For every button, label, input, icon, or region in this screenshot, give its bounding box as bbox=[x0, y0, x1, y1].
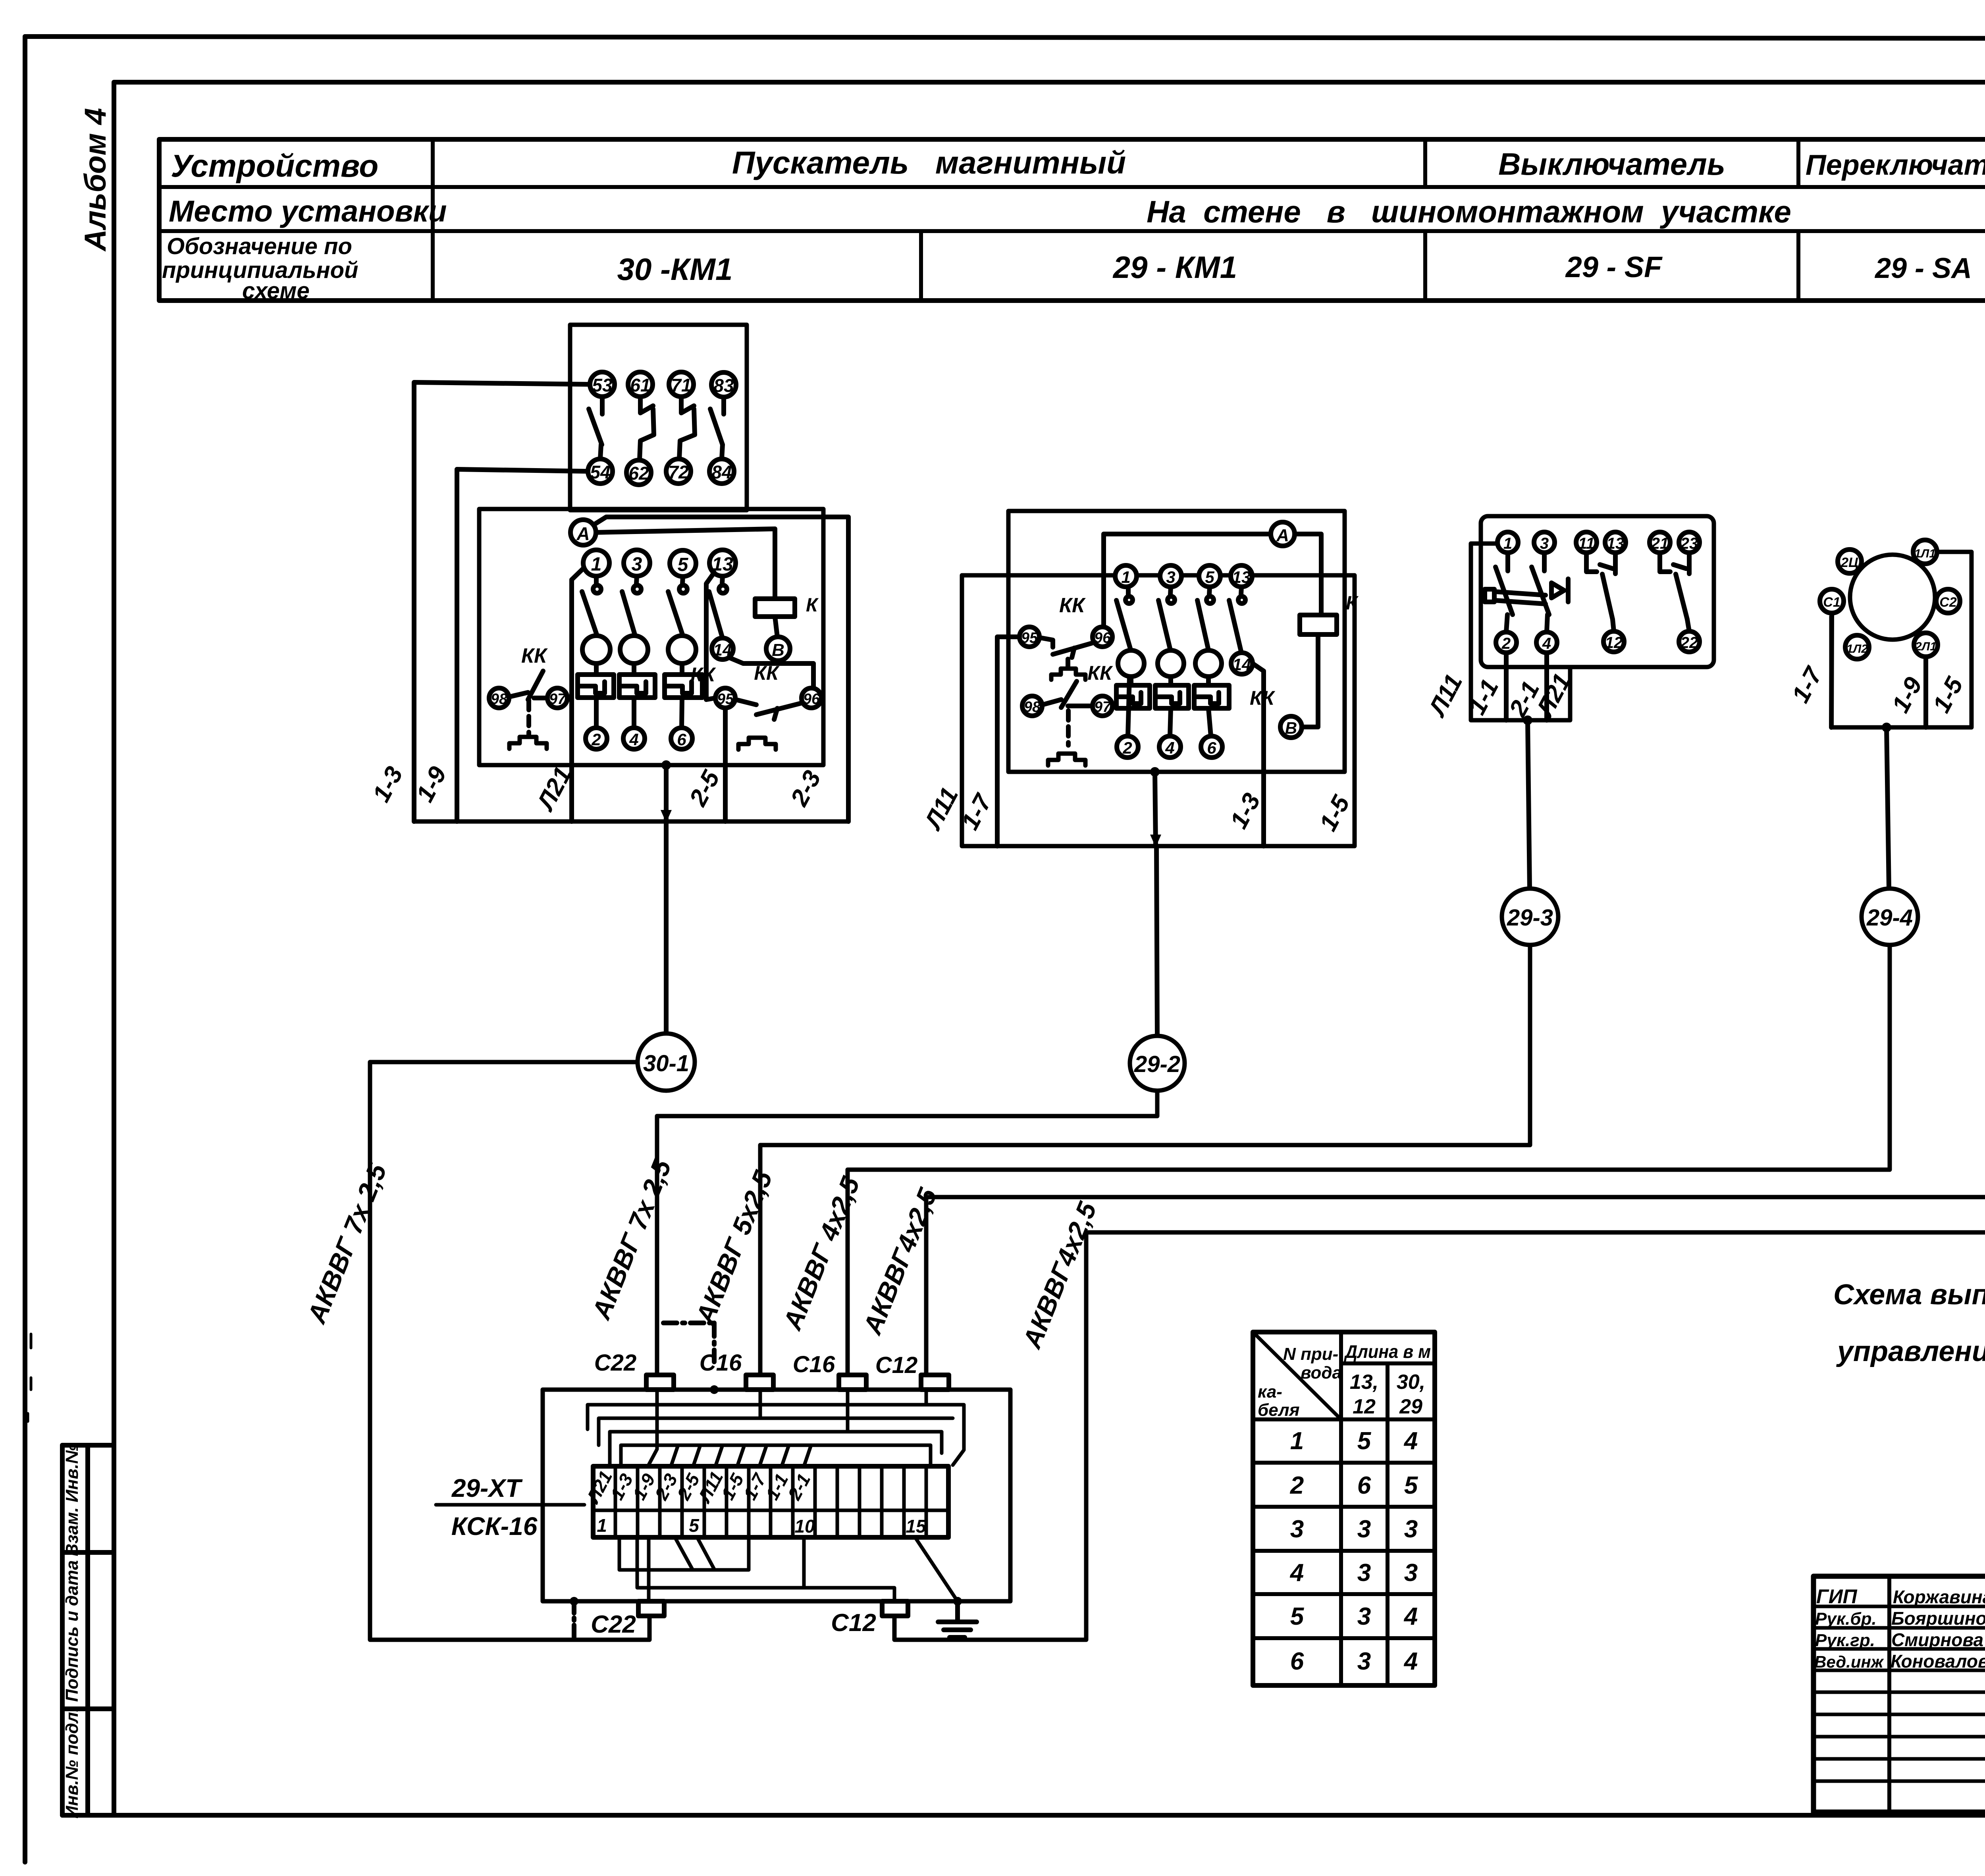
svg-text:2: 2 bbox=[591, 730, 601, 749]
svg-text:54: 54 bbox=[590, 462, 610, 482]
breaker pole 2 arm bbox=[1532, 553, 1549, 632]
terminal 13 of 29-КМ1 bbox=[1231, 565, 1252, 587]
pole coil circle 3 of 29-КМ1 bbox=[1195, 650, 1222, 677]
svg-text:98: 98 bbox=[491, 691, 508, 708]
wire 2-5 from 95 down bbox=[723, 708, 728, 821]
svg-text:Рук.гр.: Рук.гр. bbox=[1815, 1631, 1875, 1650]
svg-text:Рук.бр.: Рук.бр. bbox=[1815, 1609, 1877, 1629]
selector terminal 1Л2 bbox=[1845, 635, 1869, 659]
wire terminal 2 lead bbox=[594, 698, 599, 728]
breaker latch tick bbox=[1566, 579, 1571, 602]
wire terminal 4 lead of 29-КМ1 bbox=[1170, 708, 1171, 736]
aux contact 61-62 NC bbox=[640, 397, 654, 460]
internal wiring loop 2 bbox=[588, 1390, 964, 1465]
cable marker circle 29-3 bbox=[1502, 889, 1558, 945]
terminal 13 of 29-SF bbox=[1605, 532, 1626, 553]
svg-text:4: 4 bbox=[1165, 738, 1174, 757]
svg-text:1Л2: 1Л2 bbox=[1846, 642, 1868, 656]
svg-text:5: 5 bbox=[1404, 1472, 1418, 1499]
contact arm 95-96 of 29-КМ1 bbox=[1040, 638, 1092, 657]
svg-text:13: 13 bbox=[1232, 568, 1251, 586]
svg-text:1Л1: 1Л1 bbox=[1914, 547, 1936, 560]
svg-text:С2: С2 bbox=[1939, 595, 1957, 610]
heater element 2 of 29-КМ1 bbox=[1155, 677, 1189, 708]
wire A to coil K bbox=[1295, 534, 1321, 615]
ground symbol bbox=[938, 1597, 977, 1637]
aux contact 21-22 of 29-SF bbox=[1660, 553, 1689, 631]
svg-text:5: 5 bbox=[1290, 1603, 1305, 1630]
terminal 54 bbox=[588, 459, 613, 484]
svg-text:2: 2 bbox=[1122, 738, 1132, 757]
wire С1 down 1-7 bbox=[1831, 613, 1832, 727]
svg-text:13: 13 bbox=[1607, 535, 1625, 552]
cable gland С16 top 2 bbox=[839, 1375, 866, 1390]
terminal strip outline bbox=[593, 1466, 948, 1537]
svg-text:5: 5 bbox=[689, 1515, 700, 1536]
cable gland С12 bottom bbox=[882, 1601, 908, 1616]
aux pole 13-14 contact bbox=[709, 576, 727, 637]
svg-text:4: 4 bbox=[1403, 1427, 1418, 1455]
svg-text:1: 1 bbox=[591, 554, 602, 575]
device table split 30-КМ1 / 29-КМ1 bbox=[919, 231, 923, 301]
svg-text:72: 72 bbox=[668, 462, 689, 482]
svg-text:С22: С22 bbox=[594, 1350, 636, 1376]
svg-text:A: A bbox=[576, 523, 590, 544]
contact arm 95-96 bbox=[736, 700, 803, 719]
svg-text:29 - SA: 29 - SA bbox=[1874, 253, 1972, 284]
svg-text:Выключатель: Выключатель bbox=[1498, 147, 1725, 181]
svg-text:Подпись и дата: Подпись и дата bbox=[62, 1560, 82, 1702]
thermal release dashed stem of 29-КМ1 bbox=[1066, 711, 1071, 745]
device table outline bbox=[159, 139, 1985, 301]
svg-text:1: 1 bbox=[1290, 1427, 1304, 1455]
terminal 95 of 29-КМ1 bbox=[1019, 627, 1039, 647]
cable run from 29-2 to С22 gland bbox=[657, 1091, 1157, 1375]
thermal release bracket 1 bbox=[509, 737, 547, 749]
node B bbox=[766, 637, 790, 661]
svg-text:4: 4 bbox=[1289, 1559, 1304, 1587]
svg-text:6: 6 bbox=[1207, 738, 1216, 757]
svg-text:4: 4 bbox=[1403, 1603, 1418, 1630]
svg-text:29: 29 bbox=[1399, 1395, 1422, 1418]
selector switch 29-SA body circle bbox=[1850, 555, 1935, 640]
svg-text:2Ц: 2Ц bbox=[1840, 555, 1858, 570]
shield dash-dot mark bbox=[663, 1323, 714, 1362]
strip cell labels bbox=[582, 1467, 927, 1537]
pole 3 contact bbox=[668, 576, 687, 634]
svg-text:5: 5 bbox=[1205, 568, 1214, 586]
svg-text:КСК-16: КСК-16 bbox=[451, 1512, 538, 1541]
svg-text:С16: С16 bbox=[700, 1350, 742, 1376]
heater element 3 of 29-КМ1 bbox=[1194, 677, 1229, 708]
svg-text:2Л1: 2Л1 bbox=[1915, 640, 1937, 653]
pole 2 contact of 29-КМ1 bbox=[1158, 587, 1175, 648]
wire terminal 6 lead bbox=[682, 698, 682, 728]
wire bus to cable circle 29-2 bbox=[1156, 846, 1157, 1036]
svg-text:6: 6 bbox=[1357, 1472, 1371, 1499]
svg-text:С1: С1 bbox=[1823, 595, 1840, 610]
svg-text:2: 2 bbox=[1290, 1472, 1304, 1499]
wire 1-7 from 95 bbox=[997, 637, 1019, 846]
svg-text:С12: С12 bbox=[831, 1609, 876, 1637]
terminal 71 bbox=[669, 372, 694, 397]
internal wiring loop 4 bbox=[610, 1390, 942, 1466]
svg-text:11: 11 bbox=[1578, 535, 1595, 552]
wire A to 96 bbox=[1104, 534, 1271, 627]
cable run from 29-3 to С16 gland bbox=[760, 945, 1530, 1375]
svg-text:97: 97 bbox=[1094, 699, 1112, 715]
terminal 6 bbox=[671, 728, 692, 749]
svg-text:Место установки: Место установки bbox=[169, 195, 447, 228]
terminal 97 bbox=[547, 688, 567, 708]
wire 1-3 from terminal 53 bbox=[414, 382, 590, 821]
svg-text:30-1: 30-1 bbox=[643, 1051, 689, 1076]
svg-text:3: 3 bbox=[1357, 1559, 1371, 1587]
terminal 5 of 29-КМ1 bbox=[1199, 565, 1220, 587]
svg-text:Инв.№ подл.: Инв.№ подл. bbox=[62, 1707, 82, 1818]
wire 13 down to 95 bbox=[706, 573, 715, 700]
thermal release bracket B of 29-КМ1 bbox=[1048, 754, 1085, 765]
pole 3 contact of 29-КМ1 bbox=[1197, 587, 1214, 648]
svg-text:С12: С12 bbox=[875, 1352, 917, 1378]
svg-text:29-4: 29-4 bbox=[1866, 905, 1913, 931]
selector terminal С2 bbox=[1936, 589, 1960, 613]
terminal 11 of 29-SF bbox=[1576, 532, 1597, 553]
device table column: пускатель right bbox=[1423, 139, 1427, 187]
svg-text:B: B bbox=[1285, 719, 1297, 737]
wire node A to coil K bbox=[596, 529, 775, 599]
terminal 22 of 29-SF bbox=[1679, 631, 1700, 652]
aux contact 13 stub bbox=[1613, 553, 1618, 574]
svg-text:С16: С16 bbox=[793, 1352, 835, 1377]
aux contact 23 stub bbox=[1687, 553, 1692, 574]
svg-text:83: 83 bbox=[713, 375, 734, 396]
junction dot on box top bbox=[710, 1385, 719, 1394]
svg-text:3: 3 bbox=[1404, 1559, 1418, 1587]
terminal 3 of 29-SF bbox=[1534, 532, 1555, 553]
svg-text:КК: КК bbox=[1087, 662, 1113, 684]
svg-text:Взам. Инв.№: Взам. Инв.№ bbox=[62, 1444, 82, 1556]
svg-text:Переключатель: Переключатель bbox=[1806, 149, 1985, 181]
svg-text:53: 53 bbox=[592, 375, 613, 395]
wire 1-9 from terminal 54 bbox=[457, 469, 588, 821]
heater element 1 bbox=[578, 663, 614, 698]
terminal 6 of 29-КМ1 bbox=[1201, 736, 1222, 758]
terminal 12 of 29-SF bbox=[1603, 631, 1624, 652]
terminal 84 bbox=[709, 459, 734, 484]
album label: Альбом 4 bbox=[79, 108, 112, 252]
svg-text:29 - КМ1: 29 - КМ1 bbox=[1112, 250, 1237, 285]
terminal 1 bbox=[583, 550, 609, 576]
terminal 95 bbox=[715, 688, 735, 708]
aux pole 13-14 contact of 29-КМ1 bbox=[1229, 587, 1245, 651]
wire terminal 2 down bbox=[1504, 653, 1509, 720]
strip designation 29-ХТ / КСК-16 bbox=[451, 1474, 538, 1541]
junction arrow on 29-КМ1 bus bbox=[1150, 835, 1161, 847]
svg-text:6: 6 bbox=[1290, 1648, 1304, 1675]
terminal 83 bbox=[711, 372, 736, 397]
breaker trip triangle bbox=[1551, 583, 1564, 598]
svg-text:5: 5 bbox=[678, 554, 689, 575]
svg-text:3: 3 bbox=[1166, 568, 1175, 586]
contactor 29-КМ1 outer box bbox=[962, 575, 1355, 846]
cable run from 29-4 to С16 gland bbox=[848, 945, 1890, 1375]
svg-text:2: 2 bbox=[1501, 635, 1511, 652]
contact arm 98-97 bbox=[509, 671, 547, 700]
svg-text:К: К bbox=[806, 595, 819, 616]
internal wiring loop 3 bbox=[599, 1390, 953, 1445]
thermal release bracket 2 bbox=[738, 738, 776, 750]
terminal strip mid line bbox=[593, 1509, 948, 1512]
svg-text:КК: КК bbox=[521, 644, 548, 667]
svg-text:29-ХТ: 29-ХТ bbox=[451, 1474, 523, 1502]
terminal 14 bbox=[712, 638, 733, 659]
svg-text:30,: 30, bbox=[1397, 1371, 1425, 1394]
wire 1-3 from 14 bbox=[1253, 663, 1264, 846]
pole 2 contact bbox=[622, 576, 641, 634]
wire coil to B bbox=[1302, 634, 1318, 727]
node A bbox=[570, 520, 596, 545]
terminal 5 bbox=[670, 550, 696, 576]
terminal 4 of 29-SF bbox=[1536, 632, 1557, 653]
svg-text:3: 3 bbox=[1357, 1515, 1371, 1543]
svg-text:62: 62 bbox=[628, 463, 649, 484]
wire junction down to bus bbox=[1155, 772, 1156, 846]
svg-text:97: 97 bbox=[549, 691, 567, 708]
junction dot under 29-SF bbox=[1523, 715, 1532, 725]
svg-text:14: 14 bbox=[1233, 655, 1251, 674]
coil K of 29-КМ1 bbox=[1300, 593, 1359, 634]
contact arm 98-97 of 29-КМ1 bbox=[1043, 681, 1092, 708]
svg-text:96: 96 bbox=[1094, 630, 1111, 646]
svg-text:10: 10 bbox=[794, 1516, 815, 1537]
selector box outline bbox=[1831, 552, 1972, 727]
wire terminal 4 lead bbox=[632, 698, 636, 728]
heater element 1 of 29-КМ1 bbox=[1116, 677, 1150, 708]
cable table header rows bbox=[1253, 1363, 1435, 1419]
svg-text:N при-: N при- bbox=[1283, 1344, 1338, 1364]
wire terminal 6 lead of 29-КМ1 bbox=[1208, 708, 1211, 736]
internal wiring loop 1 bbox=[648, 1390, 657, 1466]
below-strip wire cell10 bbox=[802, 1537, 806, 1588]
terminal 14 of 29-КМ1 bbox=[1231, 653, 1253, 674]
names in title block bbox=[1814, 1585, 1985, 1672]
svg-text:B: B bbox=[772, 640, 784, 660]
svg-text:4: 4 bbox=[1403, 1648, 1418, 1675]
svg-text:Длина в м: Длина в м bbox=[1343, 1341, 1431, 1362]
svg-text:беля: беля bbox=[1258, 1400, 1300, 1420]
terminal 13 bbox=[709, 550, 736, 576]
sheet outer border top line bbox=[25, 37, 1985, 39]
svg-text:29-3: 29-3 bbox=[1507, 905, 1553, 931]
wire cell15 to ground bbox=[915, 1537, 957, 1600]
svg-text:Вед.инж: Вед.инж bbox=[1814, 1652, 1884, 1671]
terminal 98 of 29-КМ1 bbox=[1022, 696, 1042, 716]
cable marker circle 30-1 bbox=[638, 1033, 695, 1091]
terminal 96 of 29-КМ1 bbox=[1093, 627, 1112, 647]
cable gland С12 top bbox=[921, 1375, 949, 1390]
svg-text:3: 3 bbox=[1357, 1603, 1371, 1630]
wire down to 29-4 bbox=[1887, 727, 1889, 889]
svg-text:К: К bbox=[1346, 593, 1359, 614]
aux contact 11-12 of 29-SF bbox=[1586, 553, 1614, 631]
terminal 21 of 29-SF bbox=[1650, 532, 1670, 553]
svg-text:Альбом 4: Альбом 4 bbox=[79, 108, 112, 252]
heater element 3 bbox=[665, 663, 702, 698]
svg-text:Коржавина: Коржавина bbox=[1893, 1587, 1985, 1607]
svg-text:95: 95 bbox=[1021, 630, 1038, 646]
terminal 96 bbox=[802, 688, 821, 708]
terminal 3 bbox=[624, 550, 650, 576]
left strip label: Инв.№ подл. bbox=[62, 1707, 82, 1818]
junction dot under 29-SA bbox=[1882, 723, 1891, 732]
junction dot on box bottom bbox=[661, 760, 671, 770]
terminal 72 bbox=[666, 459, 691, 484]
contactor 29-КМ1 inner box bbox=[1008, 511, 1345, 772]
svg-text:12: 12 bbox=[1605, 634, 1623, 652]
terminal 61 bbox=[628, 372, 653, 397]
breaker pole 1 arm bbox=[1495, 553, 1513, 632]
terminal 2 bbox=[586, 728, 607, 749]
svg-text:3: 3 bbox=[1540, 535, 1549, 552]
contactor 30-КМ1 main box bbox=[479, 509, 823, 765]
cable length table outline bbox=[1253, 1332, 1435, 1685]
cable marker circle 29-2 bbox=[1130, 1036, 1185, 1091]
cable bus of 30-КМ1 bbox=[414, 819, 848, 824]
svg-text:13,: 13, bbox=[1350, 1371, 1378, 1394]
coil K bbox=[755, 595, 819, 617]
table texts bbox=[162, 145, 1985, 304]
wire 2Л1 down 1-9 bbox=[1923, 657, 1928, 727]
svg-text:6: 6 bbox=[677, 730, 686, 749]
svg-text:вода: вода bbox=[1301, 1363, 1342, 1382]
cable gland С16 top 1 bbox=[746, 1375, 773, 1390]
svg-text:96: 96 bbox=[803, 691, 820, 708]
cable table data rows bbox=[1253, 1463, 1435, 1638]
internal wiring loop 5 bbox=[621, 1445, 931, 1466]
heater element 2 bbox=[619, 663, 655, 698]
svg-text:С22: С22 bbox=[591, 1611, 636, 1638]
contactor 30-КМ1 auxiliary contact box bbox=[570, 325, 747, 510]
svg-text:29-2: 29-2 bbox=[1134, 1051, 1180, 1077]
svg-text:Бояршинов: Бояршинов bbox=[1891, 1608, 1985, 1629]
wire bus to cable circle 30-1 bbox=[664, 821, 669, 1033]
pole coil circle 2 bbox=[620, 636, 648, 663]
svg-text:5: 5 bbox=[1357, 1427, 1372, 1455]
cable run from 30-6 to bottom С12 gland bbox=[894, 956, 1985, 1640]
breaker 29-SF main box bbox=[1481, 516, 1714, 667]
terminal 1 of 29-SF bbox=[1497, 532, 1518, 553]
pole coil circle 1 bbox=[582, 636, 610, 663]
selector terminal С1 bbox=[1820, 589, 1844, 613]
svg-text:КК: КК bbox=[690, 663, 716, 686]
svg-text:84: 84 bbox=[711, 462, 732, 482]
svg-text:1: 1 bbox=[1503, 535, 1512, 552]
svg-text:Смирнова: Смирнова bbox=[1891, 1629, 1983, 1650]
wire terminal 2 lead of 29-КМ1 bbox=[1128, 677, 1129, 736]
cable marker circle 29-4 bbox=[1862, 889, 1918, 945]
svg-text:29 - SF: 29 - SF bbox=[1565, 251, 1663, 283]
pole coil circle 2 of 29-КМ1 bbox=[1158, 650, 1184, 677]
svg-text:98: 98 bbox=[1024, 699, 1041, 715]
junction dot on 29-КМ1 inner box bottom bbox=[1150, 767, 1160, 777]
svg-text:22: 22 bbox=[1680, 634, 1698, 652]
terminal 97 of 29-КМ1 bbox=[1093, 696, 1112, 716]
wire node A to bus 2-3 bbox=[594, 517, 848, 821]
left frame strip columns bbox=[62, 1445, 114, 1815]
below-strip loop to С22 bottom bbox=[647, 1537, 651, 1601]
cable run from 29-5 to С12 gland bbox=[926, 954, 1985, 1375]
terminal 3 of 29-КМ1 bbox=[1160, 565, 1181, 587]
svg-text:A: A bbox=[1276, 526, 1289, 545]
svg-text:ГИП: ГИП bbox=[1816, 1585, 1858, 1608]
left strip label: Подпись и дата bbox=[62, 1560, 82, 1702]
breaker 29-SF sub box bbox=[1471, 544, 1570, 720]
pole coil circle 1 of 29-КМ1 bbox=[1118, 650, 1144, 677]
wire coil K to node B bbox=[775, 617, 777, 637]
svg-text:схеме: схеме bbox=[242, 278, 310, 304]
thermal release bracket A of 29-КМ1 bbox=[1051, 659, 1085, 680]
cable table header texts bbox=[1258, 1341, 1431, 1675]
cable table header diagonal bbox=[1253, 1332, 1341, 1419]
svg-text:На стене в шиномонтажном: На стене в шиномонтажном участке bbox=[1147, 194, 1791, 229]
wire terminal 4 down bbox=[1544, 653, 1549, 720]
aux contact 71-72 NC bbox=[679, 397, 695, 459]
terminal 2 of 29-КМ1 bbox=[1117, 736, 1138, 758]
title block left columns bbox=[1889, 1576, 1985, 1812]
terminal strip cell dividers bbox=[615, 1466, 926, 1537]
С22 bottom pocket dash-dot bbox=[570, 1597, 578, 1638]
title block outline bbox=[1813, 1576, 1985, 1812]
device table column: name column bbox=[431, 139, 435, 301]
selector terminal 1Л1 bbox=[1913, 540, 1937, 564]
svg-text:1: 1 bbox=[1121, 568, 1130, 586]
breaker gang crossbar bbox=[1485, 589, 1546, 604]
svg-text:Пускатель магнитный: Пускатель магнитный bbox=[732, 145, 1126, 180]
sheet outer border left line bbox=[23, 37, 27, 1862]
svg-text:КК: КК bbox=[1059, 594, 1086, 617]
svg-text:4: 4 bbox=[1542, 635, 1551, 652]
svg-text:21: 21 bbox=[1651, 535, 1669, 552]
svg-text:Коновалова: Коновалова bbox=[1891, 1651, 1985, 1672]
svg-text:Обозначение по: Обозначение по bbox=[167, 233, 352, 259]
pole 1 contact of 29-КМ1 bbox=[1116, 587, 1133, 648]
cell drop wires bbox=[671, 1445, 811, 1466]
wire Л21 from terminal 1 bbox=[572, 568, 584, 821]
device table row line 2 bbox=[159, 229, 1985, 233]
wire down to 29-3 bbox=[1528, 720, 1530, 889]
svg-text:3: 3 bbox=[1290, 1515, 1304, 1543]
svg-text:управления лист 24.: управления лист 24. bbox=[1836, 1336, 1985, 1367]
terminal 4 bbox=[623, 728, 645, 749]
svg-text:12: 12 bbox=[1353, 1395, 1376, 1418]
svg-text:3: 3 bbox=[1404, 1515, 1418, 1543]
below-strip short loop bbox=[619, 1537, 749, 1570]
svg-text:71: 71 bbox=[671, 375, 691, 395]
terminal 53 bbox=[590, 372, 615, 397]
svg-text:ка-: ка- bbox=[1258, 1382, 1282, 1402]
device table row line 1 bbox=[159, 185, 1985, 189]
aux contact 83-84 NO bbox=[710, 397, 724, 459]
svg-text:4: 4 bbox=[629, 730, 638, 749]
terminal 98 bbox=[489, 688, 509, 708]
junction arrow on bus bbox=[664, 765, 669, 821]
svg-text:61: 61 bbox=[630, 375, 650, 395]
outer-line tick marks bbox=[28, 1334, 31, 1421]
wire 14 to 96 bbox=[729, 657, 813, 688]
svg-text:1: 1 bbox=[597, 1515, 607, 1536]
svg-text:3: 3 bbox=[1357, 1648, 1371, 1675]
